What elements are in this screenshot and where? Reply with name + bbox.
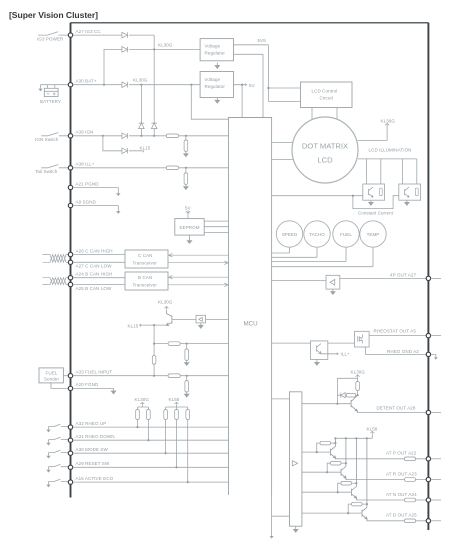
transistor Q4 (317, 344, 322, 354)
MCU U1 box (229, 118, 272, 496)
svg-text:EEPROM: EEPROM (180, 225, 200, 230)
transistor Q6 detent (351, 395, 358, 411)
wire illumination rail (358, 159, 417, 184)
wire R18 to junction (356, 394, 358, 396)
resistor R25 AT D (352, 502, 363, 506)
wire ACTIVE ECO row (73, 481, 229, 483)
wire Q4 collector to ILL+ (321, 353, 338, 355)
clamp diode D6 (151, 122, 157, 136)
junction CC base (352, 195, 354, 197)
wire AT D stub (431, 520, 441, 522)
gauge FUEL circle (333, 221, 359, 247)
diode D3 BAT (122, 82, 128, 88)
resistor R17 detent pullup (356, 382, 360, 391)
svg-text:KL30G: KL30G (158, 42, 173, 47)
ground arrow Q3 (405, 200, 409, 205)
node AT D OUT A25 (426, 519, 430, 523)
ground arrow U9 (294, 526, 298, 532)
junction AT P base (316, 451, 318, 453)
wire KL58 rail (335, 435, 372, 439)
ground arrow R2 (184, 151, 188, 156)
wire rheo gnd stub (431, 354, 436, 357)
junction VR2 out (241, 84, 243, 86)
svg-text:TEMP: TEMP (367, 232, 380, 237)
svg-text:C CAN: C CAN (138, 253, 153, 258)
wire MCU to AT driver (272, 398, 290, 400)
clamp diode D5 (139, 122, 145, 136)
svg-text:LCD Control: LCD Control (312, 89, 338, 94)
node A29 RESET SW (68, 465, 72, 469)
wire Q1 base to driver (172, 319, 196, 321)
junction rail R (345, 437, 347, 439)
voltage regulator U2 box (200, 39, 233, 61)
junction IGN branch (102, 135, 104, 137)
junction R21 collector (345, 462, 347, 464)
node 4P OUT A27 (426, 276, 430, 280)
wire rheostat out (369, 335, 426, 337)
wire sender to node (63, 375, 68, 377)
svg-text:Regulator: Regulator (205, 84, 226, 89)
wire R19 to collector (331, 442, 336, 444)
wire IGN branch to KL15 (103, 136, 144, 153)
node A15 ACTIVE ECO (68, 480, 72, 484)
wire RHEO DOWN row (73, 439, 229, 441)
svg-text:MCU: MCU (244, 321, 258, 328)
wire MCU bottom drop (272, 495, 290, 536)
ground arrow Q4 (315, 359, 319, 365)
resistor R3 ILL series (166, 166, 178, 170)
cluster frame top edge (71, 22, 429, 24)
wire detent out stub (431, 412, 441, 414)
net flag arrow KL30G detent (356, 375, 360, 378)
net flag arrow ILL+ (337, 353, 338, 355)
transistor Q9 AT N (352, 438, 357, 498)
transistor Q8 AT R (341, 438, 346, 478)
node RHEO GND A2 (426, 352, 430, 356)
wire C CAN TX (168, 253, 229, 257)
diode D1 IG3 (122, 32, 128, 38)
wire B CAN high (73, 277, 125, 279)
resistor R14 eco pullup (186, 410, 190, 420)
ground arrow RHEO DOWN switch (46, 443, 50, 446)
junction ACTIVE ECO pullup (187, 481, 189, 483)
wire C CAN high (73, 254, 125, 256)
resistor R13 reset pullup (175, 410, 179, 420)
svg-text:Constant Current: Constant Current (358, 211, 394, 216)
svg-text:A9 SGND: A9 SGND (76, 199, 97, 204)
wire R10 drop (137, 420, 139, 428)
svg-text:A30 BAT+: A30 BAT+ (76, 79, 97, 84)
svg-text:KL30G: KL30G (351, 369, 366, 374)
node A30 BAT+ (68, 83, 72, 87)
junction detent collector (357, 394, 359, 396)
wire MCU to CC bases (272, 196, 399, 209)
transistor Q2 (369, 187, 373, 197)
junction VR2 feed (190, 84, 192, 86)
node A39 IGN (68, 134, 72, 138)
svg-text:Regulator: Regulator (205, 51, 226, 56)
wire R12 drop (165, 420, 167, 454)
svg-text:FUEL: FUEL (340, 232, 352, 237)
wire detent out (357, 411, 426, 412)
junction R23 collector (355, 482, 357, 484)
driver glyph U7 (199, 317, 203, 322)
DOT MATRIX LCD circle (292, 117, 358, 183)
switch ACTIVE ECO (49, 479, 69, 484)
wire AT P out (335, 458, 426, 459)
ground arrow FGND (111, 388, 115, 393)
wire FUEL row (73, 375, 229, 377)
svg-text:A30 MODE SW: A30 MODE SW (76, 447, 109, 452)
B CAN transceiver U6 box (125, 272, 168, 290)
wire MODE row (73, 452, 229, 454)
svg-text:4P OUT A27: 4P OUT A27 (390, 272, 416, 277)
junction rail D (366, 437, 368, 439)
svg-text:[Super Vision Cluster]: [Super Vision Cluster] (9, 10, 98, 20)
svg-text:Sender: Sender (44, 377, 60, 382)
svg-text:KL30G: KL30G (158, 300, 173, 305)
ground arrow VR1 (215, 63, 219, 69)
node A33 FUEL INPUT (68, 374, 72, 378)
svg-text:KL30G: KL30G (381, 119, 396, 124)
node RHEOSTAT OUT A5 (426, 333, 430, 337)
resistor R16 sense (415, 188, 418, 196)
driver box U7 (196, 315, 206, 323)
svg-text:A32 RHEO UP: A32 RHEO UP (76, 421, 107, 426)
wire EEPROM-MCU 1 (204, 220, 228, 222)
svg-text:AT R OUT A23: AT R OUT A23 (386, 471, 417, 476)
resistor R26 AT D out (405, 519, 416, 523)
junction rail P (334, 437, 336, 439)
wire AT P stub (431, 458, 441, 460)
transistor Q10 AT D (362, 438, 367, 519)
ground arrow ACTIVE ECO switch (46, 485, 50, 488)
junction 5V5 split (267, 87, 269, 89)
wire RESET row (73, 466, 229, 468)
node A38 ILL+ (68, 166, 72, 170)
transistor Q1 PNP (166, 311, 172, 326)
resistor R5 in KL15 vertical (152, 356, 156, 365)
svg-text:KL15: KL15 (140, 145, 151, 150)
node AT P OUT A22 (426, 457, 430, 461)
svg-text:KL58: KL58 (367, 426, 378, 431)
diode D2 BAT-to-VR1 (122, 47, 128, 53)
ground arrow rheo gnd (434, 357, 438, 360)
svg-text:A31 RHEO DOWN: A31 RHEO DOWN (76, 434, 115, 439)
wire R14 drop (187, 420, 189, 483)
net flag arrow KL30G pullups (140, 402, 144, 405)
wire 4P out (340, 277, 426, 279)
svg-text:LCD ILLUMINATION: LCD ILLUMINATION (369, 147, 412, 152)
ground arrow R4 (184, 184, 188, 189)
transistor Q4 box (311, 341, 328, 360)
wire ILL row (73, 167, 229, 169)
resistor R2 IGN pulldown (185, 136, 187, 140)
resistor R9 FUEL pulldown (186, 376, 188, 381)
ground arrow Q2 (369, 200, 373, 205)
wire KL30G pullup tee (138, 406, 149, 410)
wire AT N base (302, 483, 352, 492)
mosfet Q5 (358, 335, 363, 344)
junction pullup top row (153, 343, 155, 345)
gauge SPEED circle (276, 221, 302, 247)
node AT R OUT A23 (426, 477, 430, 481)
switch RHEO UP (49, 424, 69, 429)
wire AT D base (302, 504, 362, 513)
svg-text:KL58: KL58 (169, 397, 180, 402)
svg-text:5V: 5V (185, 205, 191, 210)
net flag arrow KL58 pullups (175, 402, 179, 405)
node AT N OUT A24 (426, 498, 430, 502)
svg-text:DETENT OUT A28: DETENT OUT A28 (377, 405, 416, 410)
resistor R10 rheo-up pullup (136, 410, 140, 420)
node A24 B CAN HIGH (68, 276, 72, 280)
node A26 C CAN HIGH (68, 252, 72, 256)
wire 4P out stub (431, 277, 441, 279)
svg-text:Voltage: Voltage (205, 44, 221, 49)
wire MCU to SPEED (272, 247, 290, 253)
resistor R23 AT N (341, 481, 352, 485)
node DETENT OUT A28 (426, 410, 430, 414)
diode D8 detent (341, 393, 345, 398)
svg-text:A38 ILL+: A38 ILL+ (76, 162, 95, 167)
wire VR2-input to MCU (191, 85, 228, 120)
junction rail N (355, 437, 357, 439)
junction IGN pulldown (185, 135, 187, 137)
resistor R4 ILL pulldown (185, 168, 187, 173)
svg-text:A21 PGND: A21 PGND (76, 181, 100, 186)
wire MCU to rheostat (272, 342, 355, 344)
node A9 SGND (68, 203, 72, 207)
resistor R19 AT P (320, 441, 331, 445)
svg-text:AT D OUT A25: AT D OUT A25 (386, 513, 417, 518)
svg-text:Tail Switch: Tail Switch (35, 169, 58, 174)
wire IG3 row (73, 35, 155, 49)
wire VR1 lower output (234, 54, 264, 117)
net flag arrow 5V EEPROM (186, 210, 190, 218)
wire C CAN low (73, 261, 125, 263)
wire detent pullup loop (337, 378, 357, 403)
wire KL58 pullup tee (166, 406, 188, 410)
transistor Q3 (405, 187, 409, 197)
junction RESET pullup (175, 466, 177, 468)
svg-text:DOT MATRIX: DOT MATRIX (302, 142, 348, 151)
net flag arrow KL30G LCD (385, 123, 389, 126)
svg-text:Transceiver: Transceiver (133, 260, 158, 265)
wire LCD ctrl to LCD stub 2 (336, 108, 338, 120)
wire B CAN low (73, 284, 125, 286)
wire sender gnd to FGND (51, 383, 68, 389)
wire AT N stub (431, 499, 441, 501)
switch RESET (49, 464, 69, 469)
junction AT R base (326, 471, 328, 473)
resistor R24 AT N out (405, 498, 416, 502)
wire AT R base (302, 463, 341, 472)
wire PGND (73, 188, 119, 194)
wire AT R out (346, 478, 426, 480)
resistor R22 AT R out (405, 478, 416, 482)
node A32 RHEO UP (68, 425, 72, 429)
diode D7 KL15 (122, 148, 128, 154)
svg-text:Voltage: Voltage (205, 77, 221, 82)
svg-text:A24 B CAN HIGH: A24 B CAN HIGH (76, 272, 113, 277)
net flag arrow KL30G mid (165, 307, 169, 311)
junction BAT branch (103, 84, 105, 86)
wire VR2 output 5V (234, 85, 247, 118)
voltage regulator U3 box (200, 72, 233, 98)
junction RHEO DOWN pullup (147, 439, 149, 441)
wire AT N out (356, 498, 426, 500)
wire LCD ctrl to LCD stub 1 (311, 108, 313, 120)
svg-text:KL30G: KL30G (133, 77, 148, 82)
wire detent base (302, 403, 351, 405)
svg-text:A20 FGND: A20 FGND (76, 382, 99, 387)
net flag arrow KL15 mid (140, 324, 143, 326)
switch IGN (41, 133, 68, 136)
gauge TEMP circle (360, 221, 386, 247)
junction ILL pulldown (185, 167, 187, 169)
wire SGND (73, 206, 119, 212)
node A21 PGND (68, 185, 72, 189)
resistor R18 detent series (346, 393, 356, 397)
node A25 B CAN LOW (68, 282, 72, 286)
svg-text:A27 C CAN LOW: A27 C CAN LOW (76, 264, 113, 269)
svg-text:AT P OUT A22: AT P OUT A22 (386, 451, 417, 456)
net flag arrow KL58 at (370, 431, 374, 434)
transistor Q7 AT P (331, 438, 336, 458)
AT driver U9 tall box (290, 392, 302, 526)
junction aux pulldown (186, 343, 188, 345)
svg-text:RHEO GND A2: RHEO GND A2 (387, 349, 419, 354)
wire R25 to collector (362, 503, 367, 505)
wire MCU to 4P driver (272, 280, 326, 282)
C CAN transceiver U5 box (125, 250, 168, 268)
svg-text:KL15: KL15 (128, 323, 139, 328)
ground arrow driver U7 (199, 323, 203, 328)
wire IGN row (73, 135, 229, 137)
svg-text:TACHO: TACHO (309, 232, 325, 237)
wire AT P base (302, 443, 331, 452)
EEPROM U4 box (175, 219, 204, 236)
svg-text:A27 IG3 CC: A27 IG3 CC (76, 29, 102, 34)
wire KL15 rail (142, 324, 166, 326)
node A30 MODE SW (68, 451, 72, 455)
switch Tail (41, 165, 68, 168)
junction IGN-D5 (140, 135, 142, 137)
junction FUEL pulldown (186, 375, 188, 377)
wire BAT branch up (104, 49, 200, 84)
wire VR1 output 5V5 (234, 45, 301, 102)
wire MCU to TEMP (272, 247, 373, 267)
battery symbol (41, 85, 69, 97)
switch RHEO DOWN (49, 437, 69, 442)
ground arrow RESET switch (46, 470, 50, 473)
svg-text:Circuit: Circuit (320, 96, 334, 101)
wire R21 to collector (341, 462, 346, 464)
wire R13 drop (176, 420, 178, 468)
svg-text:5V: 5V (249, 83, 255, 88)
buffer triangle U9 (292, 461, 297, 466)
junction VR1 input (153, 48, 155, 50)
wire C CAN RX (168, 261, 229, 265)
resistor R20 AT P out (405, 457, 416, 461)
wire FGND (73, 387, 114, 389)
ground arrow MODE switch (46, 456, 50, 459)
twisted pair B CAN (43, 278, 69, 285)
resistor R15 sense (379, 188, 382, 196)
wire R11 drop (147, 420, 149, 441)
junction RHEO UP pullup (136, 426, 138, 428)
resistor R1 IGN series (166, 134, 178, 138)
switch IG3 POWER (38, 32, 68, 35)
resistor R11 rheo-down pullup (147, 410, 151, 420)
junction detent base (336, 403, 338, 405)
ground arrow R9 (185, 392, 189, 397)
right connector bus (427, 23, 429, 530)
svg-text:IG3 POWER: IG3 POWER (37, 36, 64, 41)
resistor R8 FUEL series (168, 374, 180, 378)
junction KL15 rail (153, 324, 155, 326)
node A27 IG3 CC (68, 33, 72, 37)
junction AT N base (337, 491, 339, 493)
svg-text:ILL+: ILL+ (341, 352, 351, 357)
svg-text:KL30G: KL30G (135, 397, 150, 402)
wire R23 to collector (352, 482, 357, 484)
ground arrow EEPROM (187, 235, 191, 243)
svg-text:SPEED: SPEED (282, 232, 298, 237)
junction IGN-D6 (153, 135, 155, 137)
svg-text:5V5: 5V5 (258, 38, 267, 43)
svg-text:LCD: LCD (317, 156, 333, 165)
svg-text:A25 B CAN LOW: A25 B CAN LOW (76, 286, 112, 291)
left connector bus (70, 23, 72, 498)
wire driver to MCU (206, 319, 229, 321)
wire RHEO UP row (73, 426, 229, 428)
node A31 RHEO DOWN (68, 438, 72, 442)
svg-text:A33 FUEL INPUT: A33 FUEL INPUT (76, 370, 113, 375)
wire EEPROM-MCU 2 (204, 226, 228, 228)
wire AT R stub (431, 479, 441, 481)
junction MODE pullup (165, 452, 167, 454)
svg-text:Transceiver: Transceiver (133, 282, 158, 287)
mosfet Q5 box (355, 331, 370, 347)
FUEL sender box (39, 368, 63, 383)
svg-text:IGN Switch: IGN Switch (35, 137, 59, 142)
resistor R12 mode pullup (164, 410, 168, 420)
wire MCU to LCD 1 (272, 142, 293, 144)
wire B CAN RX (168, 283, 229, 287)
battery ground arrow (38, 89, 42, 92)
wire KL30G to LCD (358, 127, 388, 141)
junction R25 collector (366, 503, 368, 505)
twisted pair C CAN (43, 255, 69, 263)
svg-text:A26 C CAN HIGH: A26 C CAN HIGH (76, 248, 113, 253)
svg-text:B CAN: B CAN (138, 275, 152, 280)
ground arrow SGND (116, 211, 120, 214)
node A20 FGND (68, 386, 72, 390)
wire rheostat out stub (431, 335, 441, 337)
node A27 C CAN LOW (68, 260, 72, 264)
ground arrow R7 (185, 360, 189, 365)
wire KL15 pullup vertical (153, 325, 155, 376)
resistor R21 AT R (331, 461, 342, 465)
svg-text:A39 IGN: A39 IGN (76, 130, 94, 135)
svg-text:AT N OUT A24: AT N OUT A24 (386, 492, 417, 497)
wire MCU to LCD 2 (272, 158, 294, 160)
wire aux row 343 (154, 343, 228, 345)
wire B CAN TX (168, 275, 229, 279)
ground arrow PGND (116, 193, 120, 196)
